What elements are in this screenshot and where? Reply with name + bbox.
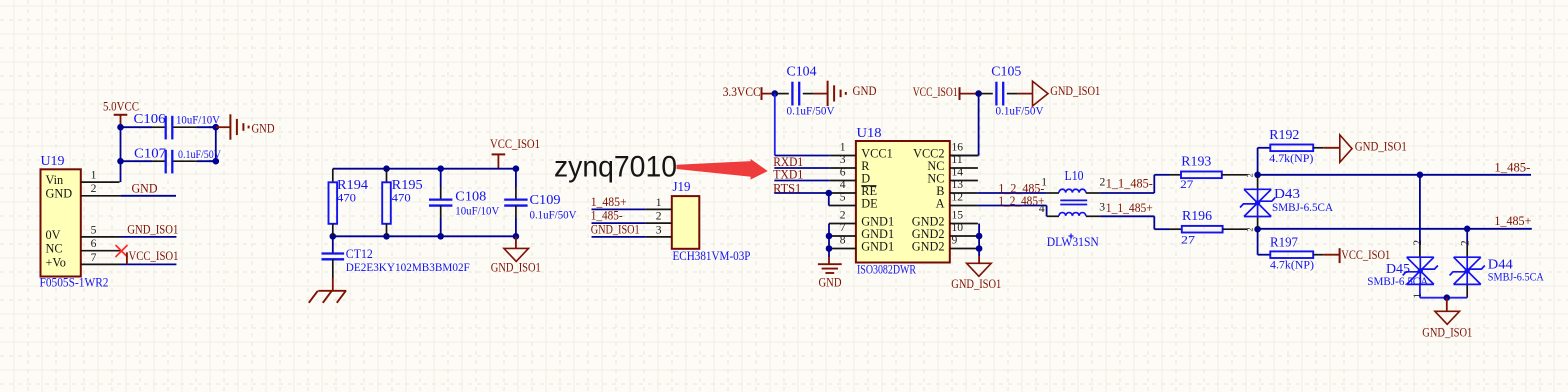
pin 7 U18 left: [829, 221, 856, 236]
svg-text:R192: R192: [1269, 127, 1299, 142]
svg-text:SMBJ-6.5CA: SMBJ-6.5CA: [1272, 201, 1334, 214]
svg-text:10: 10: [952, 221, 964, 234]
pin 1 U19: [81, 169, 120, 183]
pin 7 U19: [81, 251, 121, 265]
node junction pin10: [976, 233, 983, 240]
capacitor C108: [429, 169, 500, 237]
pin name GND2 right@223.5: [912, 214, 945, 228]
svg-text:R194: R194: [337, 177, 368, 192]
wire U18 GND2 column: [978, 224, 980, 264]
svg-text:GND: GND: [132, 181, 158, 195]
wire net RXD1: [774, 167, 830, 169]
svg-text:SMBJ-6.5CA: SMBJ-6.5CA: [1488, 271, 1545, 284]
pin 2 J19: [645, 210, 671, 223]
pin 5 U18 left: [829, 191, 856, 206]
wire C106 top: [121, 126, 216, 128]
svg-text:1_485-: 1_485-: [591, 209, 623, 223]
wire net TXD1: [774, 180, 830, 182]
arrow annotation: [677, 160, 767, 179]
pin name RE left@193.0: [861, 184, 877, 198]
ground GND_ISO1 (R192): [1323, 135, 1407, 162]
wire C107 row: [121, 160, 216, 162]
svg-text:1_485+: 1_485+: [1494, 214, 1531, 228]
pin 1 L10: [1041, 176, 1047, 189]
svg-text:1: 1: [840, 141, 846, 154]
pin name VCC2 right@155.5: [913, 146, 944, 160]
pin name GND2 right@248.5: [912, 239, 945, 253]
svg-text:1_1_485+: 1_1_485+: [1106, 201, 1153, 215]
no connect X pin6: [116, 245, 128, 257]
pin name GND2 right@236.0: [912, 227, 945, 241]
resistor R195: [382, 169, 423, 237]
pin name NC right@168.0: [927, 159, 944, 173]
pin 3 J19: [645, 224, 671, 237]
wire net 1_485-: [1258, 174, 1531, 176]
wire U18 pin1 riser: [775, 94, 830, 156]
pin 1 U18 left: [830, 141, 856, 156]
net label GND: [132, 181, 158, 195]
svg-text:ECH381VM-03P: ECH381VM-03P: [673, 249, 751, 263]
pin name D left@180.5: [861, 171, 870, 185]
node junction RTS1: [826, 190, 833, 197]
pin 10 U18 right: [950, 221, 979, 236]
wire net 1_2_485+: [978, 206, 1047, 217]
pin 3 L10: [1099, 201, 1105, 214]
resistor R197: [1270, 234, 1323, 271]
svg-text:6: 6: [840, 166, 846, 179]
svg-text:GND1: GND1: [861, 239, 894, 253]
svg-text:SMBJ-6.5CA: SMBJ-6.5CA: [1367, 275, 1429, 288]
svg-text:GND: GND: [819, 275, 842, 289]
wire net GND_ISO1 (J19): [592, 236, 646, 238]
pin 2 R193: [1245, 173, 1254, 177]
net label 1_2_485-: [998, 181, 1044, 195]
svg-text:C107: C107: [134, 145, 166, 160]
resistor R196: [1170, 208, 1248, 247]
svg-text:8: 8: [840, 234, 846, 247]
svg-text:4.7k(NP): 4.7k(NP): [1270, 258, 1314, 271]
svg-text:470: 470: [337, 192, 356, 205]
wire D43 column: [1257, 175, 1259, 229]
ground GND (U18): [818, 264, 842, 289]
svg-text:2: 2: [1459, 240, 1471, 246]
svg-text:VCC_ISO1: VCC_ISO1: [1341, 248, 1390, 262]
node junction C107 right: [213, 158, 220, 165]
value ISO3082DWR: [857, 262, 917, 276]
pin 5 U19: [81, 223, 121, 237]
pin name B right@193.0: [936, 184, 944, 198]
svg-text:14: 14: [952, 166, 964, 179]
wire net GND_ISO1 pin5: [121, 236, 176, 238]
wire net GND pin2: [121, 195, 176, 197]
pin name VCC1 left@155.5: [861, 146, 892, 160]
svg-text:2: 2: [1100, 176, 1106, 189]
svg-text:C104: C104: [787, 64, 817, 79]
svg-text:GND: GND: [46, 187, 73, 201]
power port VCC_ISO1 (C105): [913, 85, 979, 100]
diode D45: [1367, 257, 1438, 288]
svg-text:GND: GND: [853, 84, 877, 98]
svg-text:3: 3: [840, 153, 846, 166]
svg-text:5: 5: [91, 223, 97, 236]
svg-text:C105: C105: [991, 64, 1021, 79]
pin name GND: [46, 187, 73, 201]
wire D44 column: [1466, 229, 1468, 298]
net label RXD1: [773, 155, 803, 169]
wire net 1_2_485-: [978, 192, 1047, 194]
svg-text:1: 1: [656, 196, 662, 209]
component J19 body: [672, 179, 700, 249]
value F0505S-1WR2: [40, 276, 109, 290]
svg-text:RTS1: RTS1: [773, 182, 801, 196]
pin 1 J19: [645, 196, 671, 209]
svg-text:1: 1: [91, 169, 97, 182]
pin name Vin: [46, 173, 64, 187]
ground GND_ISO1 (C105): [1018, 81, 1101, 106]
svg-text:D44: D44: [1488, 256, 1513, 271]
svg-text:2: 2: [840, 209, 846, 222]
pin name 0V: [46, 228, 61, 242]
svg-text:16: 16: [952, 141, 964, 154]
ground GND (C104): [814, 81, 877, 106]
net label 1_2_485+: [998, 194, 1044, 208]
wire net VCC_ISO1 pin7: [121, 263, 176, 265]
svg-text:1: 1: [1041, 176, 1047, 189]
pin 4 L10: [1039, 202, 1045, 215]
svg-text:2: 2: [1245, 173, 1254, 177]
node junction pin9: [976, 245, 983, 252]
node junction 5V-1: [117, 124, 124, 131]
node junction D45 rail: [1417, 172, 1424, 179]
svg-text:C109: C109: [530, 192, 561, 207]
wire U18 pin16 riser: [951, 94, 979, 156]
pin name NC: [46, 242, 63, 256]
wire net 1_485+ (J19): [592, 208, 646, 210]
capacitor C107: [134, 145, 222, 173]
diode D43: [1240, 186, 1334, 217]
diode D44: [1450, 256, 1545, 284]
svg-text:1_485-: 1_485-: [1494, 161, 1530, 175]
svg-text:GND2: GND2: [912, 239, 945, 253]
ground GND (C106): [216, 114, 275, 139]
node junction C105: [975, 90, 982, 97]
capacitor C105: [979, 64, 1044, 118]
power port VCC_ISO1 (R197): [1323, 248, 1390, 263]
wire right column: [215, 127, 217, 161]
wire D45-D44 bottom rail: [1420, 297, 1467, 299]
pin 16 U18 right: [950, 141, 978, 156]
node junction D44 rail: [1464, 226, 1471, 233]
wire U18 GND1 column: [828, 224, 830, 265]
pin 12 U18 right: [950, 191, 978, 206]
svg-text:R197: R197: [1270, 234, 1298, 249]
pin 2 D44: [1459, 240, 1471, 246]
wire net 1_485+: [1258, 228, 1532, 230]
text zynq7010: [554, 150, 677, 183]
pin 8 U18 left: [829, 234, 856, 249]
wire R192 branch: [1258, 148, 1271, 175]
power port 5.0VCC: [103, 99, 139, 127]
svg-text:7: 7: [91, 251, 97, 264]
net label 1_1_485+: [1106, 201, 1153, 215]
capacitor C104: [775, 64, 835, 118]
ground hatched (CT12): [309, 278, 347, 303]
svg-text:4.7k(NP): 4.7k(NP): [1269, 152, 1313, 165]
svg-text:GND_ISO1: GND_ISO1: [951, 277, 1001, 291]
power port 3.3VCC: [723, 85, 775, 100]
pin 1 D45: [1412, 293, 1424, 299]
svg-text:NC: NC: [46, 242, 63, 256]
svg-text:27: 27: [1181, 234, 1195, 247]
svg-text:12: 12: [952, 191, 964, 204]
node junction bottom rail: [1444, 294, 1451, 301]
svg-text:2: 2: [91, 182, 97, 195]
node junction pin7: [826, 233, 833, 240]
svg-text:4: 4: [1039, 202, 1045, 215]
svg-text:DE2E3KY102MB3BM02F: DE2E3KY102MB3BM02F: [346, 261, 471, 274]
svg-text:R195: R195: [392, 177, 423, 192]
net label 1_485+ (J19): [591, 195, 627, 209]
pin name NC right@180.5: [927, 171, 944, 185]
svg-text:9: 9: [952, 234, 958, 247]
pin name DE left@205.5: [861, 196, 877, 210]
op-amp U18 body: [856, 125, 950, 263]
pin name GND1 left@223.5: [861, 214, 894, 228]
svg-text:27: 27: [1180, 178, 1193, 191]
inductor L10: [1047, 168, 1101, 249]
svg-text:5: 5: [840, 191, 846, 204]
svg-text:2: 2: [656, 210, 662, 223]
svg-text:CT12: CT12: [346, 247, 373, 261]
svg-text:zynq7010: zynq7010: [554, 150, 677, 183]
svg-text:U18: U18: [857, 125, 882, 140]
ground GND_ISO1 (C109): [491, 236, 541, 274]
svg-text:10uF/10V: 10uF/10V: [176, 114, 221, 127]
component U19 body: [41, 153, 81, 277]
svg-text:6: 6: [91, 237, 97, 250]
resistor R194: [329, 177, 369, 236]
net label GND_ISO1 (U19): [127, 222, 178, 236]
net label GND_ISO1 (J19): [591, 223, 640, 237]
svg-text:3.3VCC: 3.3VCC: [723, 85, 761, 99]
net label 1_485-: [1494, 161, 1530, 175]
wire R197 branch: [1258, 229, 1271, 255]
wire bottom rail mid: [333, 235, 516, 237]
pin 6 U19: [81, 237, 121, 251]
pin name GND1 left@248.5: [861, 239, 894, 253]
svg-text:2: 2: [1245, 228, 1254, 232]
svg-text:VCC_ISO1: VCC_ISO1: [490, 137, 540, 151]
svg-text:VCC_ISO1: VCC_ISO1: [129, 249, 179, 263]
net label RTS1: [773, 182, 801, 196]
svg-text:TXD1: TXD1: [773, 168, 803, 182]
svg-text:F0505S-1WR2: F0505S-1WR2: [40, 276, 109, 290]
svg-text:0.1uF/50V: 0.1uF/50V: [178, 148, 222, 161]
svg-text:+Vo: +Vo: [46, 255, 66, 269]
svg-text:C108: C108: [455, 188, 486, 203]
svg-text:GND_ISO1: GND_ISO1: [591, 223, 640, 237]
svg-text:ISO3082DWR: ISO3082DWR: [857, 262, 917, 276]
pin 14 U18 right: [950, 166, 978, 181]
capacitor C106: [134, 111, 221, 139]
pin 2 U18 left: [829, 209, 856, 224]
svg-text:VCC_ISO1: VCC_ISO1: [913, 85, 958, 99]
svg-text:3: 3: [656, 224, 662, 237]
svg-text:11: 11: [952, 153, 963, 166]
ground GND_ISO1 (U18): [951, 263, 1001, 291]
svg-text:GND_ISO1: GND_ISO1: [491, 261, 541, 275]
pin name GND1 left@236.0: [861, 227, 894, 241]
svg-text:470: 470: [392, 192, 411, 205]
wire net RTS1: [774, 193, 829, 206]
svg-text:4: 4: [840, 178, 846, 191]
pin name R left@168.0: [861, 159, 870, 173]
svg-text:1_485+: 1_485+: [591, 195, 627, 209]
svg-text:GND_ISO1: GND_ISO1: [1355, 140, 1407, 154]
pin name +Vo: [46, 255, 66, 269]
capacitor C109: [504, 169, 577, 237]
svg-text:0.1uF/50V: 0.1uF/50V: [996, 105, 1045, 118]
capacitor CT12: [322, 236, 471, 278]
power port VCC_ISO1 (U19): [127, 249, 179, 264]
svg-text:15: 15: [952, 209, 964, 222]
ground GND_ISO1 (D44/D45): [1422, 298, 1472, 340]
resistor R192: [1269, 127, 1323, 165]
node junction C106 right: [213, 124, 220, 131]
svg-text:1_1_485-: 1_1_485-: [1106, 177, 1153, 191]
pin 4 U18 left: [829, 178, 856, 193]
net label 1_485+: [1494, 214, 1531, 228]
svg-text:D43: D43: [1274, 186, 1300, 201]
pin 11 U18 right: [950, 153, 978, 168]
svg-text:GND_ISO1: GND_ISO1: [127, 222, 178, 236]
value ECH381VM-03P: [673, 249, 751, 263]
net label 1_1_485-: [1106, 177, 1153, 191]
node junction C104: [772, 90, 779, 97]
pin name A right@205.5: [936, 196, 945, 210]
power port VCC_ISO1 (mid): [490, 137, 540, 169]
svg-text:DLW31SN: DLW31SN: [1047, 235, 1099, 249]
resistor R193: [1170, 154, 1248, 191]
wire 5V rail left: [120, 127, 122, 182]
svg-text:R193: R193: [1181, 154, 1211, 169]
svg-text:DE: DE: [861, 196, 877, 210]
wire net 1_485- (J19): [592, 222, 646, 224]
pin 2 R196: [1245, 228, 1254, 232]
node junction D43 bottom: [1254, 226, 1261, 233]
pin 2 D45: [1412, 240, 1424, 246]
wire net 1_1_485-: [1100, 175, 1169, 193]
svg-text:R196: R196: [1182, 208, 1212, 223]
svg-text:0.1uF/50V: 0.1uF/50V: [787, 105, 836, 118]
node junction D43 top: [1254, 172, 1261, 179]
svg-text:0.1uF/50V: 0.1uF/50V: [530, 209, 578, 222]
wire top rail mid: [333, 169, 516, 183]
node rail dots: [330, 165, 520, 239]
svg-text:GND_ISO1: GND_ISO1: [1050, 84, 1100, 98]
wire D45 column: [1419, 175, 1421, 298]
svg-text:L10: L10: [1065, 168, 1084, 183]
svg-text:Vin: Vin: [46, 173, 64, 187]
pin 13 U18 right: [950, 178, 978, 193]
svg-text:7: 7: [840, 221, 846, 234]
svg-text:0V: 0V: [46, 228, 61, 242]
svg-text:1_2_485+: 1_2_485+: [998, 194, 1044, 208]
svg-text:U19: U19: [41, 153, 65, 168]
pin 9 U18 right: [950, 234, 979, 249]
svg-text:C106: C106: [134, 111, 166, 126]
pin 15 U18 right: [950, 209, 978, 224]
svg-text:10uF/10V: 10uF/10V: [455, 204, 500, 217]
wire net 1_1_485+: [1100, 216, 1169, 229]
pin 6 U18 left: [830, 166, 856, 181]
net label TXD1: [773, 168, 803, 182]
node junction pin8: [826, 245, 833, 252]
pin 3 U18 left: [830, 153, 856, 168]
svg-text:3: 3: [1099, 201, 1105, 214]
pin 2 L10: [1100, 176, 1106, 189]
node junction 5V-2: [117, 158, 124, 165]
net label 1_485- (J19): [591, 209, 623, 223]
svg-text:13: 13: [952, 178, 964, 191]
svg-text:GND_ISO1: GND_ISO1: [1422, 325, 1472, 339]
svg-text:GND: GND: [252, 121, 275, 135]
svg-text:D45: D45: [1386, 261, 1410, 276]
svg-text:2: 2: [1412, 240, 1424, 246]
svg-text:A: A: [936, 196, 945, 210]
pin 2 U19: [81, 182, 121, 196]
